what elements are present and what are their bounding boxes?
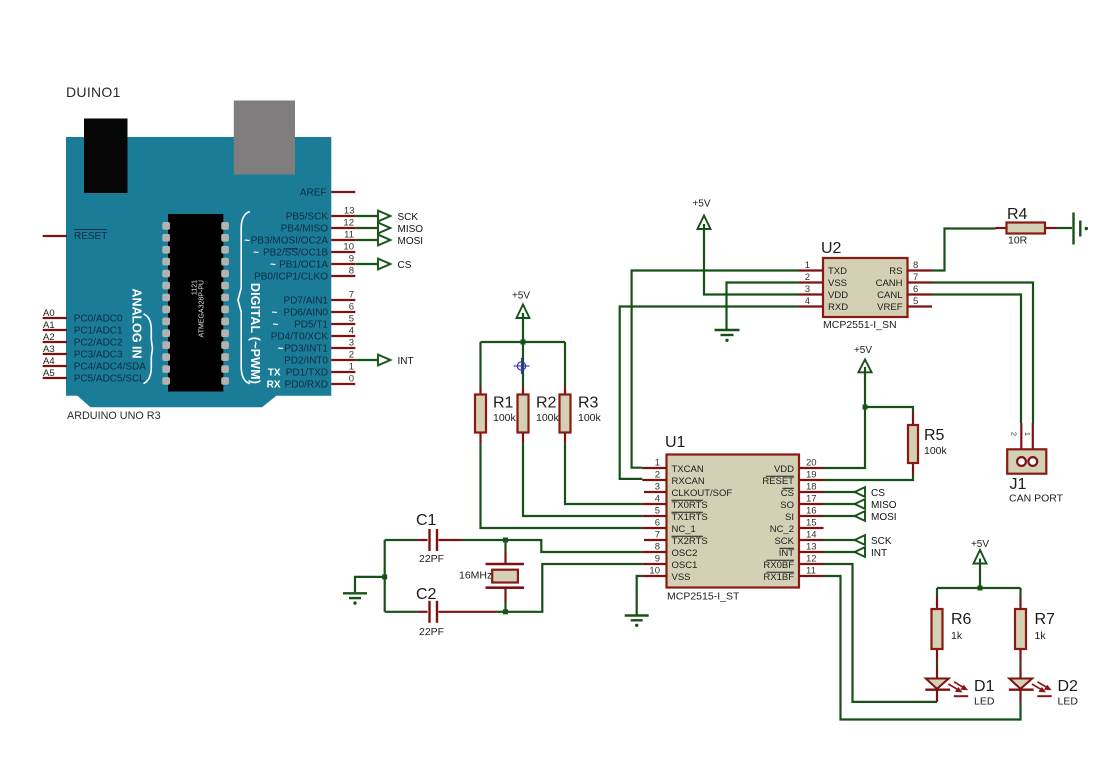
- svg-text:TX0RTS: TX0RTS: [672, 500, 708, 511]
- resistor R4: [996, 206, 1057, 247]
- svg-text:8: 8: [655, 542, 660, 553]
- terminal MOSI (mcp2515): [824, 511, 897, 523]
- digital pin names: [251, 211, 329, 390]
- wire +5V to U2 VDD pin3: [704, 229, 799, 295]
- svg-text:PD2/INT0: PD2/INT0: [284, 355, 328, 366]
- power jack: [84, 119, 128, 194]
- wire C1-C2 left vertical: [384, 540, 386, 612]
- svg-text:~: ~: [244, 235, 250, 246]
- wire node to U1 OSC1 pin9: [506, 564, 643, 612]
- digital bracket: [238, 212, 250, 384]
- svg-text:R2: R2: [536, 395, 557, 412]
- svg-text:PC2/ADC2: PC2/ADC2: [74, 337, 123, 348]
- svg-text:R6: R6: [951, 611, 972, 628]
- svg-text:1: 1: [349, 362, 354, 373]
- svg-text:PB4/MISO: PB4/MISO: [281, 223, 328, 234]
- wire R1 to U1 NC_1 pin6: [481, 444, 643, 528]
- wire U2 CANH pin7 to J1 pin1: [932, 283, 1033, 424]
- svg-text:20: 20: [806, 458, 817, 469]
- svg-text:1k: 1k: [951, 630, 963, 642]
- connector J1 CAN PORT: [1007, 423, 1063, 505]
- wire U1 RX0BF pin12 to LED D1: [824, 564, 938, 702]
- svg-text:MCP2515-I_ST: MCP2515-I_ST: [667, 591, 740, 603]
- svg-text:VSS: VSS: [672, 572, 691, 583]
- svg-text:15: 15: [806, 518, 817, 529]
- svg-text:SI: SI: [785, 512, 794, 523]
- svg-text:MISO: MISO: [871, 500, 897, 511]
- terminal INT (mcp2515): [824, 547, 888, 559]
- DIP IC pins left: [162, 222, 170, 385]
- svg-text:3: 3: [805, 284, 810, 295]
- svg-text:PD1/TXD: PD1/TXD: [286, 367, 328, 378]
- junction node on R6R7 rail: [978, 586, 983, 591]
- svg-text:ATMEGA328P-PU: ATMEGA328P-PU: [199, 280, 206, 337]
- svg-text:CANL: CANL: [877, 290, 902, 301]
- svg-text:3: 3: [655, 482, 660, 493]
- svg-text:INT: INT: [398, 356, 414, 367]
- capacitor C2: [385, 586, 496, 638]
- terminal CS (mcp2515): [824, 487, 886, 499]
- svg-text:PC5/ADC5/SCL: PC5/ADC5/SCL: [74, 373, 146, 384]
- resistor R2: [518, 386, 560, 444]
- ground (right of R4, rotated): [1074, 213, 1089, 245]
- svg-text:12: 12: [343, 218, 354, 229]
- svg-text:OSC1: OSC1: [672, 560, 698, 571]
- pin RESET: [43, 235, 67, 237]
- terminal CS (arduino): [355, 259, 411, 271]
- svg-text:1: 1: [655, 458, 660, 469]
- LED D1: [925, 666, 995, 708]
- svg-text:RESET: RESET: [762, 476, 794, 487]
- svg-text:5: 5: [349, 314, 354, 325]
- atmega328 DIP IC body: [168, 214, 223, 392]
- terminal MISO (arduino): [355, 223, 423, 235]
- svg-text:LED: LED: [1058, 696, 1079, 708]
- wire R5 bottom to U1 RESET pin19: [824, 475, 914, 481]
- op-amp U2 MCP2551: [799, 240, 933, 331]
- svg-text:PC1/ADC1: PC1/ADC1: [74, 325, 123, 336]
- svg-text:MOSI: MOSI: [398, 236, 424, 247]
- svg-text:VREF: VREF: [877, 302, 903, 313]
- svg-text:LED: LED: [974, 696, 995, 708]
- svg-text:PC3/ADC3: PC3/ADC3: [74, 349, 123, 360]
- svg-text:13: 13: [344, 206, 355, 217]
- svg-text:R1: R1: [493, 395, 514, 412]
- svg-text:PD3/INT1: PD3/INT1: [284, 343, 328, 354]
- svg-text:1: 1: [1023, 432, 1032, 436]
- resistor R1: [475, 386, 517, 444]
- wire U1 RX1BF pin11 to LED D2: [824, 576, 1021, 720]
- svg-text:~: ~: [253, 247, 259, 258]
- svg-text:2: 2: [805, 272, 810, 283]
- svg-text:RESET: RESET: [74, 231, 107, 242]
- svg-text:~: ~: [273, 319, 279, 330]
- svg-text:~: ~: [272, 307, 278, 318]
- svg-text:11: 11: [344, 230, 354, 241]
- wire R3 to U1 TX0RTS pin4: [565, 444, 642, 504]
- svg-text:DUINO1: DUINO1: [66, 84, 121, 100]
- svg-text:INT: INT: [871, 548, 887, 559]
- svg-text:R3: R3: [578, 395, 599, 412]
- wire +5V rail over R6 R7: [979, 564, 981, 589]
- LED D2: [1009, 666, 1079, 708]
- svg-text:A2: A2: [43, 332, 55, 343]
- resistor R7: [1015, 597, 1055, 661]
- svg-text:SCK: SCK: [774, 536, 794, 547]
- wire node to ground: [355, 577, 385, 592]
- svg-text:D1: D1: [974, 678, 995, 695]
- wire R6 to D1: [936, 661, 938, 666]
- terminal INT (arduino): [355, 355, 413, 367]
- svg-text:10R: 10R: [1008, 235, 1028, 247]
- terminal MISO (mcp2515): [824, 499, 897, 511]
- svg-text:0: 0: [349, 374, 354, 385]
- svg-text:4: 4: [349, 326, 354, 337]
- pin-name overlines: [672, 476, 795, 572]
- wire junction to R5 top: [865, 407, 913, 414]
- svg-text:RXCAN: RXCAN: [672, 476, 705, 487]
- svg-text:R4: R4: [1007, 206, 1028, 223]
- wire R7 to D2: [1019, 661, 1021, 666]
- svg-text:22PF: 22PF: [419, 553, 444, 565]
- svg-text:RX0BF: RX0BF: [763, 560, 794, 571]
- svg-text:SO: SO: [780, 500, 794, 511]
- terminal SCK (mcp2515): [824, 535, 892, 547]
- svg-text:4: 4: [655, 494, 660, 505]
- usb connector: [234, 101, 295, 175]
- svg-text:5: 5: [655, 506, 660, 517]
- svg-text:TX: TX: [268, 367, 281, 378]
- wire R2 to U1 TX1RTS pin5: [523, 444, 642, 516]
- svg-text:MOSI: MOSI: [871, 512, 897, 523]
- svg-text:CANH: CANH: [876, 278, 903, 289]
- wire C1 to crystal node: [462, 539, 506, 541]
- svg-text:SCK: SCK: [871, 536, 892, 547]
- wire rail to R7: [1019, 588, 1021, 597]
- svg-text:16: 16: [806, 506, 817, 517]
- junction node at R5 top: [863, 405, 868, 410]
- svg-text:C2: C2: [416, 586, 437, 603]
- svg-text:ANALOG IN: ANALOG IN: [130, 288, 144, 358]
- svg-text:MCP2551-I_SN: MCP2551-I_SN: [823, 319, 897, 331]
- ground (left of C1 C2): [343, 593, 367, 605]
- svg-text:~: ~: [278, 343, 284, 354]
- svg-text:11: 11: [806, 566, 816, 577]
- terminal MOSI (arduino): [355, 235, 423, 247]
- svg-text:7: 7: [655, 530, 660, 541]
- svg-text:22PF: 22PF: [419, 626, 444, 638]
- svg-text:OSC2: OSC2: [672, 548, 698, 559]
- power +5V (above R1 R2 R3): [512, 291, 530, 319]
- svg-text:2: 2: [349, 350, 354, 361]
- wire U1 VSS pin10 to ground: [637, 576, 643, 615]
- svg-text:TX2RTS: TX2RTS: [672, 536, 708, 547]
- svg-text:TXD: TXD: [828, 266, 847, 277]
- svg-text:NC_1: NC_1: [672, 524, 696, 535]
- svg-text:TX1RTS: TX1RTS: [672, 512, 708, 523]
- wire C2 to node: [496, 611, 506, 613]
- wire rail to R1: [479, 342, 481, 386]
- svg-text:4: 4: [805, 296, 810, 307]
- DIP IC pins right: [221, 222, 229, 385]
- chip U1 MCP2515: [642, 434, 823, 603]
- svg-text:ARDUINO UNO R3: ARDUINO UNO R3: [67, 410, 161, 422]
- power +5V (above R5): [854, 345, 872, 372]
- svg-text:100k: 100k: [493, 412, 517, 424]
- svg-text:VDD: VDD: [828, 290, 848, 301]
- analog bracket: [144, 314, 153, 384]
- svg-text:10: 10: [649, 566, 660, 577]
- junction node C2/XTAL/OSC1: [503, 609, 508, 614]
- svg-text:CS: CS: [398, 260, 412, 271]
- analog pin stubs A0-A5: [43, 317, 67, 319]
- svg-text:RXD: RXD: [828, 302, 848, 313]
- svg-text:DIGITAL (~PWM): DIGITAL (~PWM): [248, 283, 262, 384]
- svg-text:100k: 100k: [924, 445, 948, 457]
- svg-text:PB0/ICP1/CLKO: PB0/ICP1/CLKO: [254, 271, 328, 282]
- svg-text:A1: A1: [43, 320, 55, 331]
- white PWM tilde markers: [244, 235, 284, 354]
- wire U2 TXD pin1 to U1 TXCAN pin1: [632, 271, 799, 468]
- svg-text:VDD: VDD: [774, 464, 794, 475]
- svg-text:12: 12: [806, 554, 817, 565]
- svg-text:RS: RS: [889, 266, 902, 277]
- svg-text:1121: 1121: [192, 280, 199, 295]
- wire node to U1 OSC2 pin8: [506, 540, 643, 552]
- crystal X1 16MHz: [459, 540, 524, 612]
- svg-text:A4: A4: [43, 356, 55, 367]
- svg-text:VSS: VSS: [828, 278, 847, 289]
- resistor R3: [560, 386, 602, 444]
- svg-text:6: 6: [655, 518, 660, 529]
- wire +5V down to U1 VDD pin20: [824, 372, 866, 468]
- svg-text:PD7/AIN1: PD7/AIN1: [284, 295, 329, 306]
- svg-text:PC4/ADC4/SDA: PC4/ADC4/SDA: [74, 361, 147, 372]
- svg-text:PD6/AIN0: PD6/AIN0: [284, 307, 329, 318]
- pin AREF: [331, 191, 355, 193]
- svg-text:10: 10: [343, 242, 354, 253]
- svg-text:CS: CS: [871, 488, 885, 499]
- svg-text:8: 8: [913, 260, 918, 271]
- wire rail to R3: [564, 342, 566, 386]
- svg-text:7: 7: [913, 272, 918, 283]
- svg-text:18: 18: [806, 482, 817, 493]
- digital pin numbers: [343, 206, 354, 385]
- svg-text:MISO: MISO: [398, 224, 424, 235]
- svg-text:D2: D2: [1058, 678, 1079, 695]
- svg-text:100k: 100k: [536, 412, 560, 424]
- svg-text:1: 1: [805, 260, 810, 271]
- svg-text:CS: CS: [781, 488, 794, 499]
- origin crosshair marker: [514, 358, 530, 374]
- resistor R6: [932, 597, 972, 661]
- svg-text:R5: R5: [924, 427, 945, 444]
- wire +5V rail over R1 R2 R3: [522, 318, 524, 342]
- svg-text:14: 14: [806, 530, 817, 541]
- wire U2 CANL pin6 to J1 pin2: [932, 295, 1021, 424]
- svg-text:2: 2: [1010, 432, 1019, 436]
- arduino DUINO1: [43, 84, 356, 422]
- wire rail to R6: [936, 588, 938, 597]
- svg-text:TXCAN: TXCAN: [672, 464, 704, 475]
- wire U2 RXD pin4 to U1 RXCAN pin2: [620, 307, 799, 479]
- svg-text:1k: 1k: [1035, 630, 1047, 642]
- svg-text:17: 17: [806, 494, 817, 505]
- svg-text:PB1/OC1A: PB1/OC1A: [279, 259, 328, 270]
- svg-text:3: 3: [349, 338, 354, 349]
- svg-text:A5: A5: [43, 368, 55, 379]
- svg-text:PD4/T0/XCK: PD4/T0/XCK: [271, 331, 329, 342]
- svg-text:+5V: +5V: [692, 199, 710, 210]
- svg-text:5: 5: [913, 296, 918, 307]
- svg-text:100k: 100k: [578, 412, 602, 424]
- svg-text:PC0/ADC0: PC0/ADC0: [74, 313, 123, 324]
- svg-text:6: 6: [349, 302, 354, 313]
- svg-text:U2: U2: [821, 240, 842, 257]
- analog pin names: [74, 313, 147, 384]
- ground (below U2 VSS): [715, 330, 740, 342]
- svg-text:+5V: +5V: [854, 345, 872, 356]
- svg-text:INT: INT: [779, 548, 795, 559]
- svg-text:19: 19: [806, 470, 817, 481]
- wire rail to R2: [522, 342, 524, 386]
- power +5V (above U2 VDD): [692, 199, 710, 230]
- svg-text:A3: A3: [43, 344, 55, 355]
- node labels A0-A5: [43, 308, 55, 379]
- svg-text:CAN PORT: CAN PORT: [1009, 493, 1064, 505]
- svg-text:CLKOUT/SOF: CLKOUT/SOF: [672, 488, 733, 499]
- svg-text:J1: J1: [1010, 476, 1027, 493]
- right digital pin stubs: [331, 215, 355, 217]
- resistor R5: [908, 414, 948, 475]
- svg-text:PB5/SCK: PB5/SCK: [286, 211, 329, 222]
- svg-text:U1: U1: [665, 434, 686, 451]
- svg-text:AREF: AREF: [300, 187, 327, 198]
- wire U2 RS pin8 to R4: [932, 229, 996, 271]
- power +5V (above R6 R7): [971, 539, 989, 564]
- junction node C1/XTAL/OSC2: [503, 538, 508, 543]
- svg-text:6: 6: [913, 284, 918, 295]
- svg-text:13: 13: [806, 542, 817, 553]
- terminal SCK (arduino): [355, 211, 418, 223]
- junction node left rail to ground: [382, 574, 387, 579]
- svg-text:A0: A0: [43, 308, 55, 319]
- svg-text:9: 9: [655, 554, 660, 565]
- svg-text:PD0/RXD: PD0/RXD: [285, 379, 328, 390]
- svg-text:RX: RX: [267, 379, 281, 390]
- svg-text:RX1BF: RX1BF: [763, 572, 794, 583]
- svg-text:R7: R7: [1035, 611, 1056, 628]
- svg-text:16MHz: 16MHz: [459, 570, 492, 582]
- capacitor C1: [385, 512, 462, 565]
- svg-text:~: ~: [270, 259, 276, 270]
- svg-text:C1: C1: [416, 512, 437, 529]
- wire U2 VSS pin2 to ground: [727, 283, 799, 330]
- wire R4 to ground: [1057, 227, 1073, 229]
- svg-text:2: 2: [655, 470, 660, 481]
- junction node on +5V rail: [521, 340, 526, 345]
- svg-text:PB3/MOSI/OC2A: PB3/MOSI/OC2A: [251, 235, 329, 246]
- SS overline: [285, 248, 299, 250]
- svg-text:9: 9: [349, 254, 354, 265]
- svg-text:NC_2: NC_2: [770, 524, 794, 535]
- arduino board body: [66, 137, 331, 407]
- svg-text:+5V: +5V: [512, 291, 530, 302]
- svg-text:PD5/T1: PD5/T1: [294, 319, 328, 330]
- ground (below U1 VSS): [625, 616, 649, 628]
- svg-text:7: 7: [349, 290, 354, 301]
- svg-text:SCK: SCK: [398, 212, 419, 223]
- svg-text:8: 8: [349, 266, 354, 277]
